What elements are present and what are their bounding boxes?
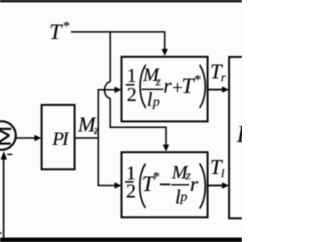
top block: 1/2(Mz/lp r + T*) bbox=[122, 57, 208, 122]
wire: summing junction to PI with arrow bbox=[16, 137, 35, 139]
svg-text:2: 2 bbox=[127, 84, 137, 106]
sigma symbol inside summing junction bbox=[0, 129, 11, 144]
svg-text:p: p bbox=[152, 95, 160, 110]
feedback wire from bottom bar up to summing junction bbox=[3, 160, 5, 240]
summing junction (circle, cut at left edge) bbox=[0, 121, 16, 150]
arrow into top block top bbox=[162, 49, 168, 56]
small cropped mark at left edge above bar bbox=[0, 232, 1, 234]
svg-text:p: p bbox=[179, 190, 187, 205]
svg-text:r: r bbox=[190, 172, 199, 196]
wire: Tl output with arrow bbox=[208, 185, 222, 187]
big open paren bbox=[140, 164, 146, 208]
svg-text:T: T bbox=[49, 19, 63, 44]
wire: Tr output with arrow bbox=[208, 89, 222, 91]
PI block bbox=[42, 105, 75, 169]
big open paren bbox=[140, 65, 146, 108]
bottom figure border bar bbox=[0, 238, 242, 242]
right block (vehicle model, cut at right edge) bbox=[229, 57, 242, 218]
wire: PI output (Mz) to branch node bbox=[75, 137, 99, 139]
minus sign label (feedback input) bbox=[7, 153, 12, 155]
wire: Mz branch into bottom block with arrow bbox=[98, 185, 116, 187]
svg-text:r: r bbox=[163, 74, 172, 98]
wire: Mz vertical branch bbox=[97, 89, 99, 186]
svg-text:*: * bbox=[194, 73, 201, 88]
wire hop (T* line jumps over Mz line) bbox=[105, 82, 111, 98]
svg-text:*: * bbox=[153, 170, 160, 185]
top figure border bar bbox=[0, 0, 242, 2]
minus bbox=[160, 183, 170, 185]
wire: T* vertical branch down to hop bbox=[109, 31, 111, 82]
svg-text:l: l bbox=[221, 165, 225, 180]
wire: Mz branch into top block with arrow bbox=[98, 89, 116, 91]
bottom block: 1/2(T* - Mz/lp r) bbox=[122, 152, 208, 217]
wire: T* branch continues to bottom block top bbox=[110, 98, 166, 145]
svg-text:z: z bbox=[155, 73, 161, 88]
big close paren bbox=[200, 65, 206, 108]
svg-text:E: E bbox=[236, 122, 242, 148]
arrow into bottom block top bbox=[163, 145, 169, 152]
svg-text:*: * bbox=[63, 19, 70, 34]
svg-text:2: 2 bbox=[126, 181, 136, 203]
wire: T* horizontal line bbox=[71, 32, 165, 49]
big close paren bbox=[200, 164, 206, 209]
feedback arrowhead into summing junction bbox=[1, 151, 7, 159]
